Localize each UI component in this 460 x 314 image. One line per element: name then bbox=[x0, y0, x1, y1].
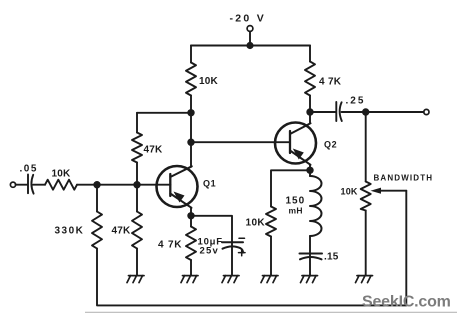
svg-text:Q1: Q1 bbox=[203, 179, 216, 189]
wire Q1 emitter column bbox=[190, 208, 192, 227]
svg-text:330K: 330K bbox=[55, 226, 85, 237]
junction node 330K tap bbox=[93, 181, 100, 188]
wire 10K to ground bbox=[270, 237, 272, 276]
wire Q2 base link bbox=[191, 141, 290, 143]
svg-text:.25: .25 bbox=[346, 96, 366, 107]
junction node output bbox=[362, 108, 369, 115]
svg-text:.05: .05 bbox=[20, 164, 38, 175]
resistor R 10K (input series) bbox=[45, 180, 77, 190]
wire emitter to 10K bbox=[271, 170, 310, 206]
capacitor C .15 bbox=[300, 253, 323, 255]
wire 47K lower lead bbox=[136, 163, 138, 185]
label minus bbox=[239, 237, 245, 239]
junction node 47K tap lower bbox=[133, 181, 140, 188]
capacitor C .05 input bbox=[27, 175, 29, 194]
wire output right bbox=[342, 111, 424, 113]
wire cap to resistor bbox=[33, 184, 45, 186]
svg-text:SeekIC.com: SeekIC.com bbox=[362, 294, 451, 311]
resistor R 10K (emitter Q2) bbox=[266, 207, 276, 237]
terminal -20V supply bbox=[247, 26, 253, 32]
ground .15 bbox=[301, 276, 318, 283]
wire left column upper bbox=[190, 46, 192, 63]
wire right column to Q2 bbox=[309, 96, 311, 124]
svg-text:4 7K: 4 7K bbox=[319, 77, 342, 88]
resistor R 4.7K (collector load Q2) bbox=[305, 62, 315, 96]
wire pot top lead bbox=[365, 112, 367, 182]
wire pot to ground bbox=[365, 211, 367, 276]
ground 10K bbox=[261, 276, 278, 283]
terminal input bbox=[10, 182, 15, 187]
wire feedback loop bbox=[97, 191, 406, 306]
wire right column upper bbox=[309, 46, 311, 62]
ground pot bbox=[356, 276, 373, 283]
wire 4.7K to ground bbox=[190, 260, 192, 276]
junction node emitter Q2 bbox=[306, 167, 313, 174]
junction node Q2 base tap bbox=[187, 139, 194, 146]
svg-text:mH: mH bbox=[289, 206, 303, 216]
wire left column mid bbox=[190, 96, 192, 167]
ground 47K bbox=[127, 276, 144, 283]
svg-text:BANDWIDTH: BANDWIDTH bbox=[374, 174, 434, 183]
transistor Q2 bbox=[275, 123, 316, 165]
wire base bus Q1 bbox=[77, 184, 171, 186]
potentiometer R 10K BANDWIDTH bbox=[361, 182, 371, 211]
capacitor C 10uF 25v bbox=[222, 241, 243, 243]
junction node 47K tap bbox=[187, 109, 194, 116]
wire top supply rail bbox=[191, 45, 310, 47]
ground 10uF bbox=[222, 276, 239, 283]
wire 47K top link bbox=[137, 112, 191, 114]
junction node emitter/bypass bbox=[187, 212, 194, 219]
transistor Q1 bbox=[157, 166, 198, 208]
page edge artifact bbox=[85, 311, 457, 313]
junction supply node bbox=[246, 42, 253, 49]
wire 47K upper lead bbox=[136, 113, 138, 133]
resistor R 47K (lower bias) bbox=[132, 212, 142, 249]
svg-text:10K: 10K bbox=[52, 169, 72, 180]
svg-text:4 7K: 4 7K bbox=[158, 240, 182, 251]
resistor R 47K (upper bias) bbox=[132, 133, 142, 163]
wire bypass link bbox=[191, 216, 232, 242]
svg-text:10K: 10K bbox=[341, 187, 358, 197]
wire 47K lower leads bbox=[136, 185, 138, 212]
wiper arrow bbox=[371, 188, 382, 194]
capacitor C .25 output bbox=[335, 102, 337, 121]
svg-text:47K: 47K bbox=[144, 145, 164, 156]
svg-text:47K: 47K bbox=[112, 226, 132, 237]
svg-text:-20 V: -20 V bbox=[230, 13, 267, 25]
svg-text:10K: 10K bbox=[199, 76, 219, 87]
wire coil to cap to ground bbox=[309, 236, 311, 276]
wire input lead bbox=[16, 184, 28, 186]
terminal output bbox=[424, 109, 429, 114]
junction node output tap bbox=[306, 108, 313, 115]
wire Q2 emitter column bbox=[309, 165, 311, 177]
resistor R 330K bbox=[92, 212, 102, 249]
wire 47K to ground bbox=[136, 249, 138, 276]
svg-text:10K: 10K bbox=[246, 218, 266, 229]
svg-text:Q2: Q2 bbox=[324, 140, 337, 150]
svg-text:.15: .15 bbox=[324, 252, 339, 263]
wire -20V stem bbox=[249, 32, 251, 46]
ground 4.7K bbox=[181, 276, 198, 283]
inductor L 150 mH bbox=[310, 176, 322, 236]
svg-text:25v: 25v bbox=[200, 246, 219, 257]
label plus bbox=[239, 252, 246, 254]
wire output left bbox=[310, 111, 336, 113]
wire 330K upper lead bbox=[96, 185, 98, 212]
resistor R 10K (collector load Q1) bbox=[186, 63, 196, 96]
resistor R 4.7K (emitter Q1) bbox=[186, 227, 196, 261]
